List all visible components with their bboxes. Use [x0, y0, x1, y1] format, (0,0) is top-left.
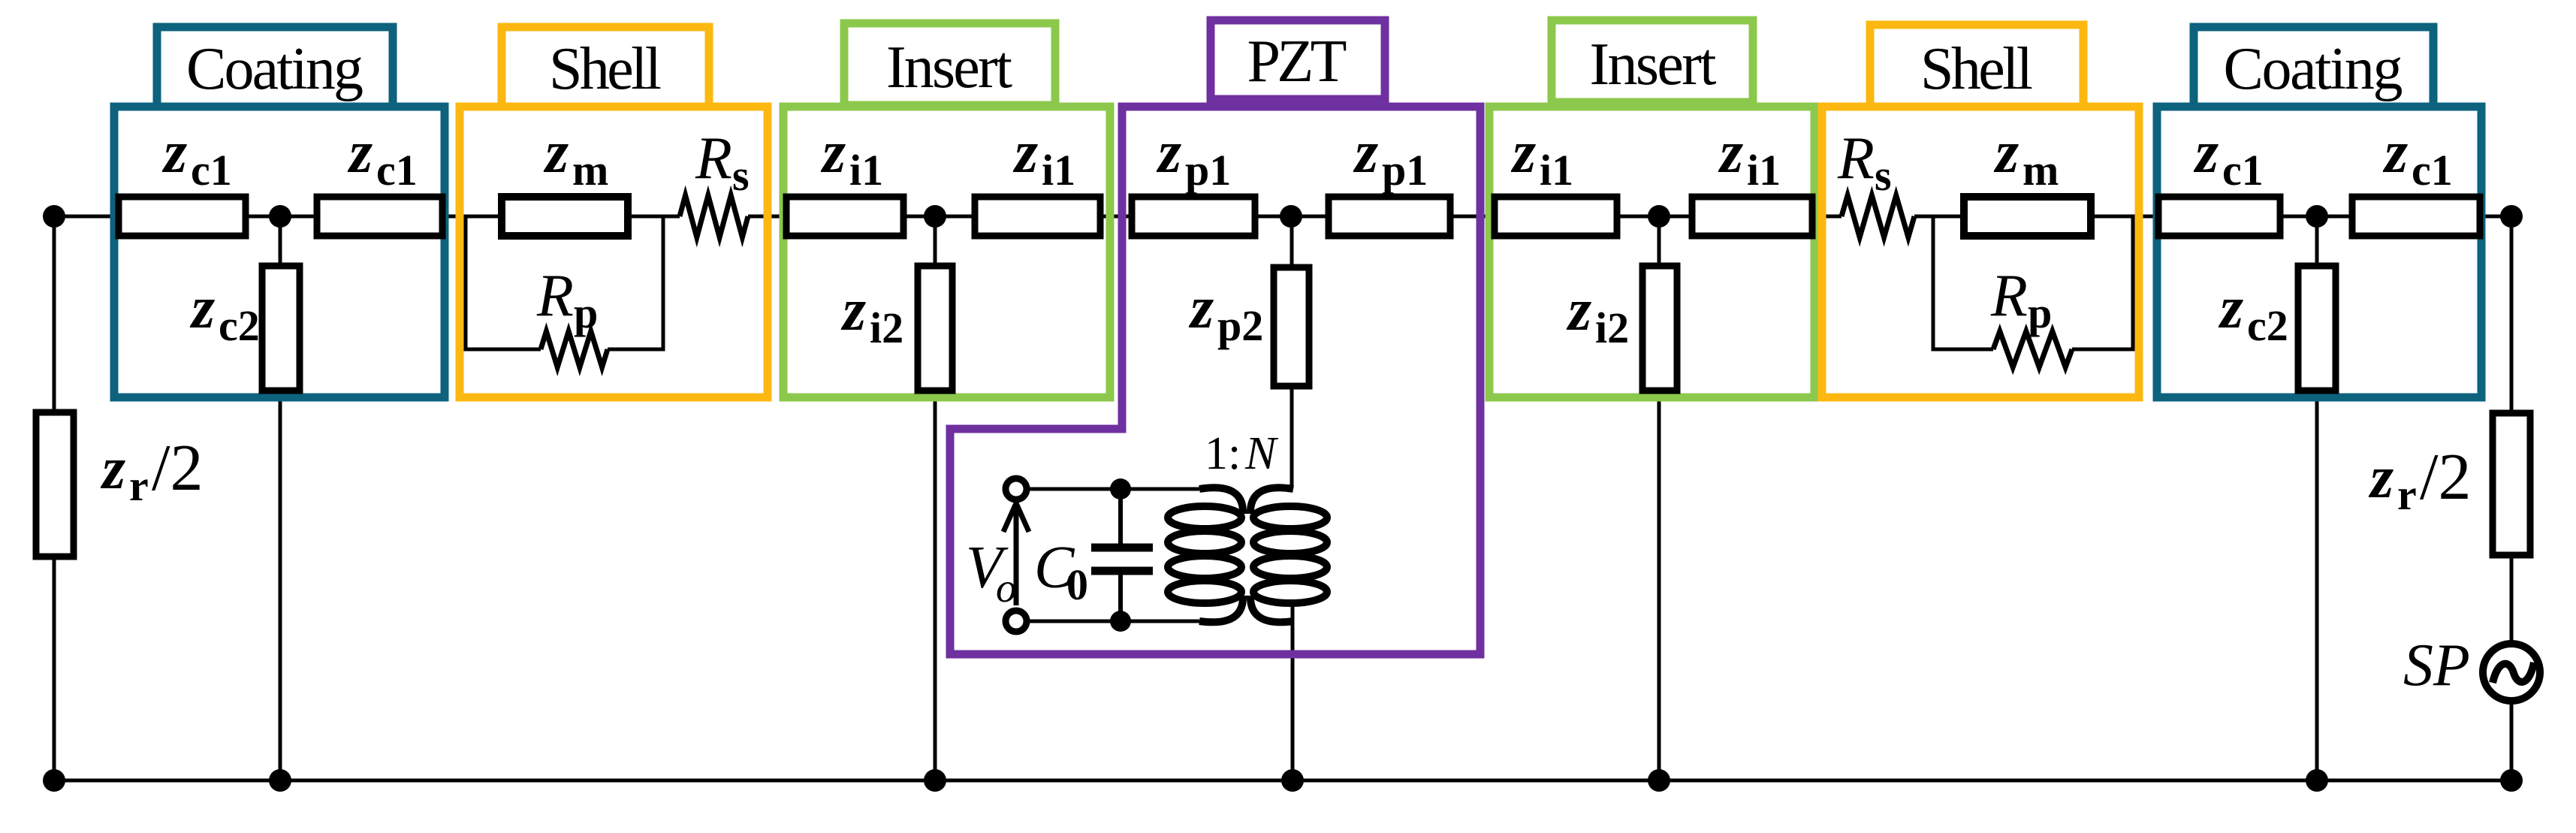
svg-text:p1: p1	[1382, 146, 1428, 195]
node bottom transformer	[1281, 769, 1304, 792]
svg-text:i2: i2	[870, 303, 903, 352]
wire z_p2 shunt	[1290, 216, 1294, 488]
Shell box right	[1822, 107, 2139, 397]
svg-text:Shell: Shell	[549, 36, 662, 102]
svg-text:p: p	[574, 288, 598, 337]
node top right terminal	[2500, 205, 2523, 228]
svg-text:/2: /2	[2420, 441, 2471, 514]
Coating box right	[2157, 107, 2481, 397]
svg-text:z: z	[2382, 119, 2408, 186]
svg-text:/2: /2	[152, 432, 203, 505]
svg-text:z: z	[1566, 277, 1591, 343]
wire transformer secondary to rail	[1291, 601, 1295, 780]
wire right branch	[2510, 216, 2514, 780]
svg-text:c1: c1	[2222, 146, 2264, 195]
wire top rail left	[54, 215, 680, 219]
svg-text:p2: p2	[1217, 301, 1263, 350]
svg-text:z: z	[820, 119, 846, 186]
Shell label right	[1870, 25, 2083, 107]
Insert label right	[1552, 20, 1753, 102]
impedance z_c1 right inner	[2352, 197, 2480, 236]
transformer secondary winding	[1250, 487, 1327, 622]
node capacitor bottom	[1110, 611, 1131, 632]
node bottom right	[2500, 769, 2523, 792]
Coating label left	[157, 27, 393, 107]
impedance z_i1 left outer	[786, 197, 903, 236]
svg-text:SP: SP	[2403, 632, 2470, 699]
Shell box left	[460, 107, 768, 397]
node bottom z_c2 right	[2306, 769, 2328, 792]
svg-text:r: r	[129, 461, 149, 510]
Insert box right	[1489, 107, 1814, 397]
impedance z_c1 right outer	[2158, 197, 2280, 236]
svg-text:Insert: Insert	[886, 35, 1012, 101]
svg-text:R: R	[1837, 125, 1875, 192]
svg-text:Coating: Coating	[2224, 36, 2403, 102]
svg-text:s: s	[732, 151, 750, 200]
PZT label	[1211, 20, 1385, 99]
svg-text:z: z	[1353, 119, 1378, 186]
svg-text:z: z	[1012, 119, 1038, 186]
wire z_c2 right shunt	[2315, 216, 2319, 780]
node insert left	[924, 205, 946, 228]
node PZT center	[1280, 205, 1302, 228]
impedance z_r/2 left	[36, 412, 74, 557]
svg-text:i1: i1	[1540, 146, 1573, 195]
svg-text:z: z	[1188, 275, 1214, 341]
node bottom left	[43, 769, 65, 792]
svg-text:z: z	[2218, 275, 2243, 341]
wire top rail middle	[748, 215, 1842, 219]
svg-text:z: z	[100, 436, 125, 502]
Shell label left	[502, 27, 709, 107]
wire R_p loop right shell	[1933, 216, 2133, 349]
node coating right	[2306, 205, 2328, 228]
svg-text:c2: c2	[2247, 301, 2288, 350]
svg-text:i1: i1	[1042, 146, 1075, 195]
svg-text:c1: c1	[376, 146, 418, 195]
impedance z_p2	[1274, 267, 1309, 386]
svg-text:z: z	[2368, 445, 2394, 511]
wire z_i2 left shunt	[934, 216, 937, 780]
Insert label left	[844, 23, 1055, 105]
terminal V_o top	[1006, 478, 1027, 499]
svg-text:PZT: PZT	[1247, 29, 1347, 95]
wire z_i2 right shunt	[1658, 216, 1661, 780]
resistor R_s left	[680, 195, 748, 237]
Coating box left	[114, 107, 445, 397]
impedance z_c2 right	[2298, 266, 2336, 391]
impedance z_i1 right outer	[1495, 197, 1617, 236]
svg-text:z: z	[840, 277, 866, 343]
svg-text:c2: c2	[219, 301, 260, 350]
impedance z_m left	[502, 197, 628, 236]
impedance z_i2 right	[1642, 266, 1677, 391]
svg-text:p: p	[2028, 288, 2052, 337]
node bottom z_i2 right	[1648, 769, 1670, 792]
svg-text:i1: i1	[849, 146, 883, 195]
svg-text:p1: p1	[1185, 146, 1231, 195]
node top left terminal	[43, 205, 65, 228]
impedance z_c2 left	[262, 266, 300, 391]
svg-text:i1: i1	[1747, 146, 1781, 195]
Coating label right	[2194, 27, 2433, 107]
terminal V_o bottom	[1006, 611, 1027, 632]
svg-text:c1: c1	[2412, 146, 2453, 195]
svg-text:z: z	[161, 119, 187, 186]
Insert box left	[783, 107, 1110, 397]
svg-text:o: o	[996, 565, 1017, 611]
impedance z_p1 left	[1132, 197, 1255, 236]
impedance z_m right	[1964, 197, 2091, 236]
svg-text:m: m	[572, 146, 608, 195]
svg-text:R: R	[1990, 263, 2028, 329]
source SP	[2483, 644, 2540, 701]
svg-text:Shell: Shell	[1920, 36, 2033, 102]
transformer primary winding	[1168, 487, 1243, 622]
impedance z_i1 right inner	[1692, 197, 1812, 236]
svg-text:1:: 1:	[1205, 428, 1241, 479]
svg-text:z: z	[189, 275, 215, 341]
wire z_c2 left shunt	[279, 216, 282, 780]
svg-text:N: N	[1244, 428, 1279, 479]
node coating left	[269, 205, 291, 228]
svg-text:s: s	[1875, 151, 1892, 200]
svg-text:z: z	[347, 119, 373, 186]
wire R_p loop left shell	[466, 216, 663, 349]
svg-text:0: 0	[1066, 560, 1088, 609]
impedance z_i1 left inner	[975, 197, 1100, 236]
wire transformer top lead	[1026, 487, 1199, 491]
svg-text:r: r	[2397, 470, 2417, 519]
svg-text:m: m	[2022, 146, 2059, 195]
wire bottom rail	[54, 779, 2511, 783]
svg-text:R: R	[695, 125, 732, 192]
impedance z_r/2 right	[2493, 413, 2530, 555]
resistor R_p right	[1993, 331, 2072, 367]
svg-text:c1: c1	[191, 146, 232, 195]
svg-text:Coating: Coating	[186, 36, 363, 102]
svg-text:z: z	[1510, 119, 1536, 186]
svg-text:i2: i2	[1595, 303, 1629, 352]
arrow V_o	[1003, 503, 1029, 605]
impedance z_p1 right	[1329, 197, 1450, 236]
PZT box outline	[950, 107, 1480, 654]
svg-text:z: z	[1993, 119, 2019, 186]
svg-text:Insert: Insert	[1590, 32, 1717, 98]
svg-text:R: R	[536, 263, 574, 329]
node bottom z_i2 left	[924, 769, 946, 792]
node capacitor top	[1110, 478, 1131, 499]
svg-text:z: z	[1156, 119, 1181, 186]
svg-text:z: z	[2193, 119, 2219, 186]
wire transformer bottom lead	[1026, 620, 1199, 623]
resistor R_s right	[1842, 195, 1914, 237]
impedance z_c1 left outer	[119, 197, 246, 236]
node insert right	[1648, 205, 1670, 228]
capacitor C0	[1118, 489, 1123, 544]
svg-text:z: z	[543, 119, 569, 186]
svg-text:z: z	[1718, 119, 1743, 186]
impedance z_i2 left	[918, 266, 952, 391]
wire left branch	[53, 216, 56, 780]
impedance z_c1 left inner	[317, 197, 442, 236]
wire top rail right	[1914, 215, 2511, 219]
node bottom z_c2 left	[269, 769, 291, 792]
resistor R_p left	[541, 331, 608, 367]
